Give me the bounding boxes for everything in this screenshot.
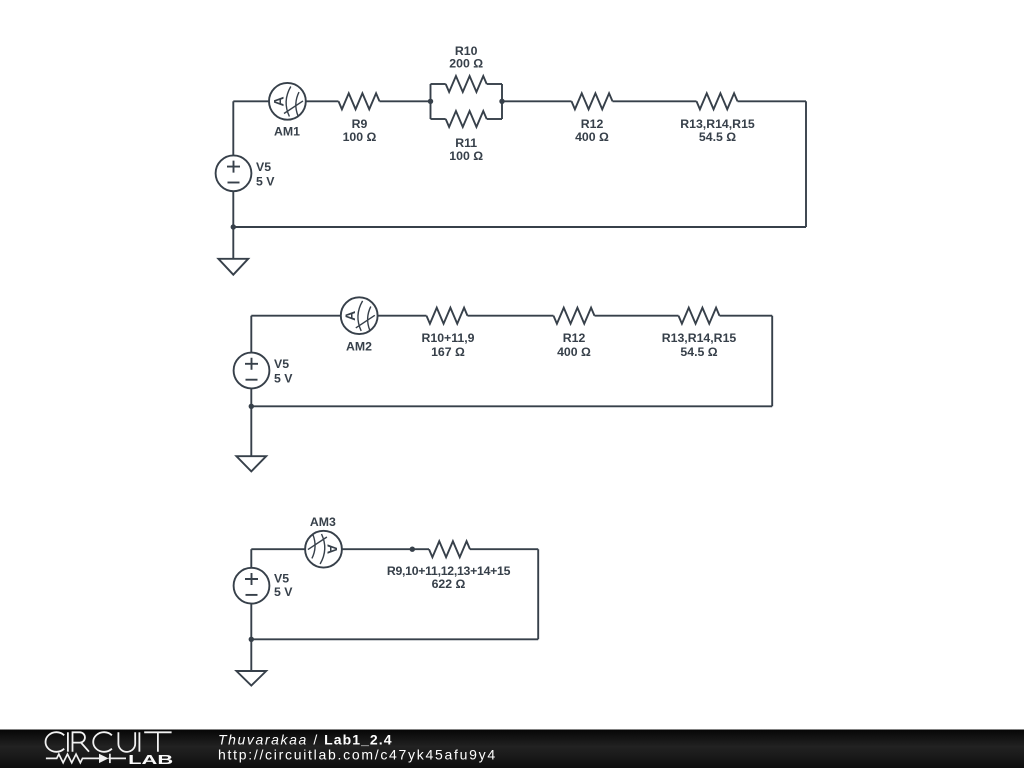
- svg-text:Thuvarakaa / Lab1_2.4: Thuvarakaa / Lab1_2.4: [218, 731, 393, 747]
- label AM2: [346, 340, 372, 354]
- wire top branch right lead: [487, 83, 502, 85]
- svg-text:AM3: AM3: [310, 515, 336, 529]
- node junction middle ground: [249, 404, 254, 409]
- resistor R10: [446, 76, 487, 92]
- ground (bottom): [236, 671, 266, 686]
- node junction left of parallel pair: [428, 99, 433, 104]
- wire to R13 (middle): [595, 315, 679, 317]
- ammeter AM3: [305, 531, 342, 568]
- svg-text:R12: R12: [563, 331, 586, 345]
- ammeter AM1: [269, 83, 306, 120]
- wire node to resistor: [412, 548, 429, 550]
- label R10: [449, 44, 483, 71]
- wire bottom rail (bottom circuit): [251, 638, 538, 640]
- wire R13 to right edge: [738, 100, 807, 102]
- ground (top): [218, 259, 248, 275]
- label R11: [449, 136, 483, 163]
- svg-text:R13,R14,R15: R13,R14,R15: [680, 117, 755, 131]
- wire bottom branch left lead: [431, 118, 446, 120]
- wire middle circuit left vertical upper: [250, 316, 252, 353]
- svg-text:622 Ω: 622 Ω: [432, 577, 466, 591]
- wire resistor to right edge (bottom): [470, 548, 538, 550]
- wire bottom circuit left vertical lower: [250, 604, 252, 640]
- wire AM2 to R10+11,9: [378, 315, 427, 317]
- ground (middle): [236, 456, 266, 471]
- svg-text:AM2: AM2: [346, 340, 372, 354]
- svg-text:A: A: [325, 544, 341, 554]
- wire top circuit right vertical: [805, 101, 807, 227]
- label R10+11,9: [422, 331, 475, 359]
- wire top circuit left vertical lower: [232, 191, 234, 227]
- label R9,10+11,12,13+14+15: [387, 564, 511, 591]
- CircuitLab logo: [46, 732, 172, 752]
- svg-text:54.5 Ω: 54.5 Ω: [699, 130, 736, 144]
- wire parallel to R12: [502, 100, 572, 102]
- wire parallel right vertical: [501, 84, 503, 119]
- label R12 (top): [575, 117, 609, 144]
- wire bottom right vertical: [537, 549, 539, 639]
- svg-text:200 Ω: 200 Ω: [449, 57, 483, 71]
- node junction bottom ground: [249, 637, 254, 642]
- svg-text:167 Ω: 167 Ω: [431, 345, 465, 359]
- resistor R12 (middle): [554, 308, 595, 324]
- svg-text:R9,10+11,12,13+14+15: R9,10+11,12,13+14+15: [387, 564, 511, 578]
- wire to ground (middle): [250, 406, 252, 456]
- footer bar: [0, 730, 1024, 768]
- resistor R9: [339, 93, 380, 109]
- ammeter AM2: [341, 297, 378, 334]
- wire to R12 (middle): [468, 315, 554, 317]
- svg-text:R13,R14,R15: R13,R14,R15: [662, 331, 737, 345]
- wire middle top rail to ammeter: [251, 315, 340, 317]
- label R12 (middle): [557, 331, 591, 359]
- wire middle right vertical: [771, 316, 773, 407]
- svg-text:AM1: AM1: [274, 125, 300, 139]
- voltage source V5 (middle): [234, 353, 270, 389]
- logo resistor-diode wire: [46, 754, 126, 763]
- svg-text:400 Ω: 400 Ω: [557, 345, 591, 359]
- voltage source V5 (bottom): [234, 568, 270, 604]
- svg-text:V5: V5: [274, 357, 289, 371]
- label V5 (middle): [274, 357, 293, 385]
- wire top circuit top rail to ammeter: [233, 100, 269, 102]
- svg-text:A: A: [270, 96, 286, 106]
- wire middle bottom rail: [251, 405, 772, 407]
- wire top circuit left vertical upper: [232, 101, 234, 155]
- label V5 (top): [256, 160, 275, 189]
- svg-text:100 Ω: 100 Ω: [449, 149, 483, 163]
- wire bottom top rail to ammeter: [251, 548, 305, 550]
- node junction on wire (bottom): [410, 547, 415, 552]
- svg-text:V5: V5: [274, 572, 289, 586]
- label R13,R14,R15 (top): [680, 117, 755, 144]
- voltage source V5 (top): [216, 155, 252, 191]
- svg-text:100 Ω: 100 Ω: [343, 130, 377, 144]
- resistor R13,R14,R15 (middle): [679, 308, 720, 324]
- resistor R13,R14,R15 (top): [697, 93, 738, 109]
- wire to ground (bottom): [250, 639, 252, 671]
- wire bottom circuit left vertical upper: [250, 549, 252, 568]
- wire R12 to R13: [613, 100, 697, 102]
- svg-text:http://circuitlab.com/c47yk45a: http://circuitlab.com/c47yk45afu9y4: [218, 747, 497, 763]
- wire AM1 to R9: [306, 100, 339, 102]
- label V5 (bottom): [274, 572, 293, 599]
- wire R13 to right edge (middle): [720, 315, 773, 317]
- svg-text:A: A: [342, 311, 358, 321]
- resistor R12 (top): [572, 93, 613, 109]
- svg-text:V5: V5: [256, 160, 271, 174]
- label AM3: [310, 515, 336, 529]
- resistor R9,10+11,12,13+14+15: [429, 541, 470, 557]
- svg-text:R12: R12: [581, 117, 604, 131]
- wire to ground (top): [232, 227, 234, 259]
- svg-text:5 V: 5 V: [256, 174, 275, 188]
- wire top branch left lead: [431, 83, 446, 85]
- wire middle circuit left vertical lower: [250, 388, 252, 406]
- node junction top circuit ground: [231, 224, 236, 229]
- label AM1: [274, 125, 300, 139]
- wire top circuit bottom rail: [233, 226, 806, 228]
- label R13,R14,R15 (middle): [662, 331, 737, 359]
- svg-text:5 V: 5 V: [274, 585, 293, 599]
- node junction right of parallel pair: [499, 99, 504, 104]
- svg-text:54.5 Ω: 54.5 Ω: [680, 345, 717, 359]
- svg-text:5 V: 5 V: [274, 371, 293, 385]
- svg-text:R10+11,9: R10+11,9: [422, 331, 475, 345]
- wire bottom branch right lead: [487, 118, 502, 120]
- svg-text:400 Ω: 400 Ω: [575, 130, 609, 144]
- svg-text:R9: R9: [352, 117, 368, 131]
- label R9: [343, 117, 377, 144]
- wire AM3 to node: [342, 548, 412, 550]
- svg-text:LAB: LAB: [128, 752, 173, 767]
- wire R9 to parallel node: [380, 100, 431, 102]
- resistor R11: [446, 111, 487, 127]
- resistor R10+11,9: [427, 308, 468, 324]
- wire parallel left vertical: [430, 84, 432, 119]
